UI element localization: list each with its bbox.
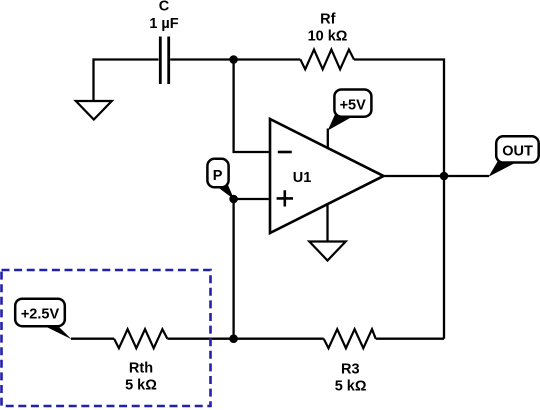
svg-text:+2.5V: +2.5V	[21, 307, 60, 323]
wire op-amp bottom edge to ground	[326, 204, 328, 242]
wire non-inverting input branch	[234, 198, 269, 200]
output wire	[384, 175, 490, 177]
bottom wire middle segment	[167, 338, 323, 340]
junction node (cap / inverting branch)	[229, 55, 238, 64]
capacitor C plates	[160, 37, 168, 85]
wire inverting input branch	[234, 58, 269, 152]
svg-text:P: P	[213, 168, 223, 184]
ground GND1 (left)	[76, 101, 112, 120]
svg-text:U1: U1	[293, 170, 312, 186]
junction node (P / non-inverting)	[229, 195, 238, 204]
svg-text:5 kΩ: 5 kΩ	[335, 379, 367, 395]
bottom wire right segment	[376, 338, 444, 340]
svg-text:OUT: OUT	[502, 144, 533, 160]
P callout pointer	[214, 182, 235, 200]
op-amp plus sign	[277, 190, 293, 206]
svg-text:5 kΩ: 5 kΩ	[125, 378, 157, 394]
svg-text:+5V: +5V	[340, 98, 367, 114]
svg-text:1 µF: 1 µF	[149, 16, 178, 32]
op-amp U1 triangle	[270, 119, 384, 233]
wire +5V supply to op-amp top edge	[327, 129, 329, 149]
svg-text:R3: R3	[341, 362, 360, 378]
wire top-left from ground riser to capacitor	[94, 60, 159, 102]
junction node (bottom rail)	[229, 334, 238, 343]
wire from capacitor to Rf	[170, 58, 300, 60]
wire Rf right to right rail down to bottom	[354, 60, 444, 339]
op-amp minus sign	[278, 151, 292, 154]
svg-text:C: C	[159, 0, 170, 15]
svg-text:10 kΩ: 10 kΩ	[308, 28, 348, 44]
junction node (output rail)	[440, 172, 449, 181]
svg-text:Rf: Rf	[320, 11, 335, 27]
svg-text:Rth: Rth	[129, 361, 153, 377]
resistor R3 zigzag	[324, 329, 376, 348]
OUT callout pointer	[489, 161, 515, 177]
OUT callout box	[496, 136, 539, 162]
resistor Rth zigzag	[114, 329, 167, 348]
resistor Rf zigzag	[300, 50, 354, 70]
P callout box	[207, 159, 228, 188]
bottom wire left segment	[71, 338, 114, 340]
+5V callout box	[334, 90, 371, 117]
+5V callout pointer	[328, 115, 353, 131]
dashed Thevenin box	[2, 270, 211, 406]
+2.5V callout pointer	[41, 324, 72, 339]
wire vertical P node down to bottom rail	[232, 199, 234, 339]
+2.5V callout box	[15, 299, 65, 327]
ground GND2 (below op-amp)	[309, 242, 345, 261]
